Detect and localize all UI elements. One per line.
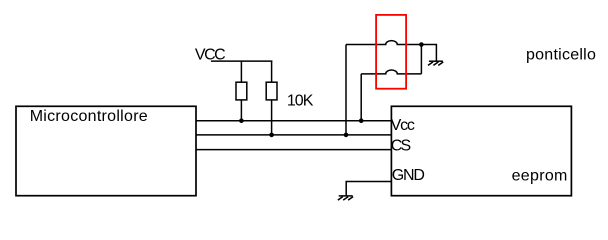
svg-text:Vcc: Vcc <box>391 117 415 134</box>
highlight box (red) around jumpers <box>376 15 406 89</box>
resistor R2 10K (right pull-up) <box>266 61 277 135</box>
wire: J2 right riser to node <box>420 45 422 74</box>
svg-text:10K: 10K <box>287 92 314 109</box>
ground GND1 (eeprom) <box>338 196 353 200</box>
IC U2 eeprom box <box>391 106 571 195</box>
IC U1 Microcontrollore box <box>16 106 196 195</box>
VCC rail wire <box>211 60 273 62</box>
wire bus3: micro to eeprom <box>196 149 391 151</box>
junction dot: riser to Vcc net <box>359 118 364 123</box>
svg-text:eeprom: eeprom <box>512 167 568 184</box>
wire: eeprom GND pin to ground <box>346 182 391 196</box>
jumper J2 (bottom, wire with hump) <box>361 70 421 74</box>
ground GND2 (near jumpers) <box>428 61 443 65</box>
resistor R1 10K (left pull-up) <box>236 61 247 121</box>
wire: CS net riser to jumper J1 <box>345 45 347 135</box>
wire: Vcc net riser to jumper J2 <box>360 74 362 121</box>
junction dot: R1 to Vcc net <box>239 118 244 123</box>
svg-text:Microcontrollore: Microcontrollore <box>30 108 148 125</box>
junction dot: riser to CS net <box>344 133 349 138</box>
svg-text:ponticello: ponticello <box>526 47 596 64</box>
wire: node to ground branch <box>421 45 436 62</box>
junction dot: R2 to CS net <box>269 133 274 138</box>
wire bus1 Vcc net: micro to eeprom <box>196 120 391 122</box>
jumper J1 (top, wire with hump) <box>346 41 421 45</box>
junction dot: jumper common node <box>419 42 424 47</box>
wire bus2 CS net: micro to eeprom <box>196 134 391 136</box>
svg-text:GND: GND <box>392 167 425 184</box>
svg-text:CS: CS <box>391 137 411 154</box>
